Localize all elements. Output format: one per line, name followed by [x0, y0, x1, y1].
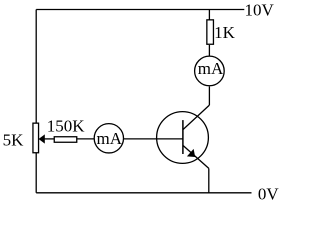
svg-text:mA: mA [97, 129, 123, 148]
svg-text:150K: 150K [47, 117, 85, 136]
svg-text:mA: mA [198, 59, 224, 78]
svg-text:10V: 10V [245, 0, 275, 19]
svg-text:5K: 5K [3, 131, 25, 150]
svg-text:0V: 0V [258, 184, 280, 202]
svg-text:1K: 1K [214, 23, 236, 42]
